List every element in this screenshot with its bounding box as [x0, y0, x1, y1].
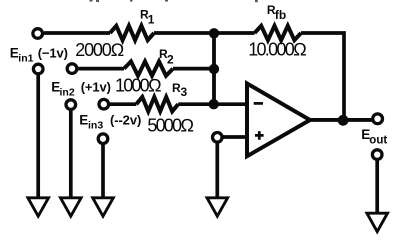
- op-amp plus pin symbol: [255, 131, 264, 140]
- svg-text:fb: fb: [275, 8, 286, 22]
- wire op-amp output: [310, 118, 372, 122]
- resistor Rfb: [255, 26, 301, 40]
- ground G1: [28, 198, 49, 216]
- terminal E_in2 top: [67, 64, 77, 74]
- svg-text:(+1v): (+1v): [81, 79, 111, 94]
- wire E_in1 bottom to ground: [36, 75, 40, 198]
- wire E_in3 bottom to ground: [101, 145, 105, 198]
- wire R2 to bus: [173, 67, 214, 71]
- svg-text:10.000Ω: 10.000Ω: [248, 40, 306, 60]
- svg-text:3: 3: [181, 85, 188, 99]
- svg-text:2: 2: [167, 53, 174, 67]
- terminal E_in3 top: [99, 99, 109, 109]
- wire E_in2 to R2: [78, 67, 124, 71]
- terminal op-amp plus: [213, 133, 223, 143]
- wire E_in1 to R1: [44, 31, 110, 35]
- ground G4: [207, 198, 228, 216]
- wire noninverting input: [222, 135, 247, 139]
- resistor R3: [136, 97, 178, 111]
- wire R1 to summing node: [154, 31, 214, 35]
- ground G3: [93, 198, 114, 216]
- svg-text:5000Ω: 5000Ω: [147, 115, 193, 135]
- terminal E_in2 bottom: [66, 100, 76, 110]
- ground G5: [367, 213, 388, 231]
- wire E_in3 to R3: [110, 102, 136, 106]
- svg-text:2000Ω: 2000Ω: [75, 40, 123, 60]
- junction node bottom (R3/bus): [209, 99, 219, 109]
- op-amp U1: [247, 84, 310, 157]
- terminal E_out bottom: [372, 150, 382, 160]
- svg-text:1: 1: [148, 12, 155, 26]
- svg-text:in1: in1: [18, 53, 33, 65]
- edge artifact marks at top: [90, 0, 258, 2]
- svg-text:in2: in2: [60, 87, 75, 99]
- wire E_out bottom to ground: [375, 161, 379, 213]
- op-amp minus pin symbol: [254, 102, 263, 105]
- ground G2: [61, 198, 82, 216]
- svg-text:out: out: [369, 134, 387, 146]
- svg-text:in3: in3: [88, 120, 103, 132]
- terminal E_out top: [373, 114, 383, 124]
- svg-text:(−1v): (−1v): [38, 45, 68, 60]
- wire R3 to op-amp inverting input: [178, 102, 247, 106]
- svg-text:(--2v): (--2v): [110, 113, 141, 128]
- wire node to Rfb: [214, 31, 255, 35]
- resistor R1: [110, 26, 154, 40]
- terminal E_in1 top: [33, 29, 43, 39]
- svg-text:E: E: [79, 113, 88, 128]
- terminal E_in3 bottom: [98, 134, 108, 144]
- wire E_in2 bottom to ground: [69, 111, 73, 198]
- wire summing bus vertical: [212, 33, 216, 104]
- resistor R2: [124, 61, 173, 75]
- junction node top (R1/Rfb/bus): [209, 28, 219, 38]
- wire Rfb to right corner and down to output: [301, 33, 344, 120]
- junction node middle (R2/bus): [209, 64, 219, 74]
- junction node output (feedback tap): [338, 115, 349, 126]
- wire op-amp plus to ground: [215, 143, 219, 197]
- terminal E_in1 bottom: [33, 64, 43, 74]
